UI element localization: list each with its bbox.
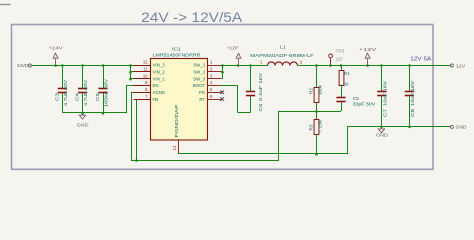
wire FB down: [136, 99, 138, 161]
svg-text:TP2: TP2: [336, 48, 345, 53]
svg-text:R3: R3: [308, 124, 314, 130]
capacitor C4: [75, 65, 90, 113]
svg-text:SW_2: SW_2: [193, 70, 206, 75]
capacitor C7: [377, 65, 388, 126]
svg-text:C8: C8: [410, 109, 416, 117]
resistor R1: [339, 65, 350, 87]
pin 9 EN: [134, 80, 159, 88]
wire BOOT loop: [221, 85, 238, 87]
wire SW bus vertical: [222, 65, 224, 79]
junction R1 top: [340, 64, 343, 67]
junction VIN bus pin10: [129, 78, 132, 81]
junction TP2: [329, 64, 332, 67]
junction +12P: [237, 64, 240, 67]
svg-text:VIN_2: VIN_2: [153, 70, 166, 75]
stray border segment top-left: [0, 4, 11, 6]
wire SW node to L1: [221, 65, 267, 67]
pin 13 PGND/DAP: [172, 104, 179, 153]
wire FB node: [279, 111, 342, 113]
pin 5 PG: [199, 87, 221, 95]
junction C4 bottom: [81, 112, 84, 115]
svg-text:7.15k: 7.15k: [318, 119, 324, 133]
capacitor C6: [246, 65, 264, 113]
pin 3 SW_3: [193, 73, 221, 81]
capacitor C3: [54, 65, 69, 113]
no-connect X on pin 5 PG: [220, 91, 224, 95]
svg-text:C5: C5: [95, 93, 101, 101]
wire EN to ground rail: [126, 85, 136, 87]
svg-text:C9: C9: [353, 96, 359, 102]
svg-text:PG: PG: [199, 90, 206, 95]
svg-text:4.7uF 50V: 4.7uF 50V: [63, 79, 69, 106]
junction C7 bottom: [380, 126, 383, 129]
svg-text:FB: FB: [153, 97, 159, 102]
svg-text:GND: GND: [456, 125, 468, 131]
power symbol +12P: [227, 45, 241, 65]
svg-text:GND: GND: [77, 122, 89, 127]
svg-text:+24V: +24V: [49, 45, 64, 50]
svg-text:PGND/DAP: PGND/DAP: [174, 104, 179, 137]
svg-text:12: 12: [143, 60, 148, 65]
svg-text:13: 13: [172, 145, 177, 150]
wire L1 to 12V output: [298, 65, 451, 67]
svg-text:24V -> 12V/5A: 24V -> 12V/5A: [141, 9, 243, 25]
pin 1 SW_1: [193, 60, 221, 68]
capacitor C8: [405, 65, 416, 126]
svg-text:C4: C4: [75, 93, 81, 101]
svg-text:11: 11: [143, 67, 148, 72]
wire VIN bus vertical: [130, 65, 132, 79]
junction C3 top: [61, 64, 64, 67]
svg-text:4.7uF 50V: 4.7uF 50V: [83, 79, 89, 106]
ground symbol (output): [381, 127, 383, 129]
svg-text:LMR51450FNDRRR: LMR51450FNDRRR: [153, 53, 202, 58]
svg-text:10: 10: [143, 73, 148, 78]
junction C5 bottom: [102, 112, 105, 115]
svg-text:100nF 50V: 100nF 50V: [104, 78, 110, 107]
pin 11 VIN_2: [134, 67, 166, 75]
svg-text:12V: 12V: [336, 56, 343, 61]
svg-text:0.1uF 16V: 0.1uF 16V: [258, 72, 264, 101]
svg-text:IC1: IC1: [172, 46, 181, 51]
pin 7 FB: [134, 94, 159, 102]
power symbol +24V: [49, 45, 64, 65]
svg-text:RT: RT: [199, 97, 205, 102]
junction +24V: [54, 64, 57, 67]
resistor R2: [308, 65, 323, 111]
svg-text:MAPMS0ADF-6R8M-LF: MAPMS0ADF-6R8M-LF: [250, 53, 314, 58]
pin 6 RT: [199, 94, 221, 102]
svg-text:R2: R2: [308, 88, 314, 94]
wire AGND down: [131, 92, 136, 94]
junction C8 bottom: [408, 126, 411, 129]
wire FB rise: [278, 111, 280, 161]
junction FB divider: [315, 110, 318, 113]
svg-text:33pF 50V: 33pF 50V: [353, 102, 376, 108]
resistor R3: [308, 111, 323, 154]
capacitor C9: [336, 85, 376, 111]
junction R2 top: [315, 64, 318, 67]
IC1 buck converter body: [151, 59, 208, 141]
svg-text:SW_1: SW_1: [193, 63, 206, 68]
pin 10 VIN_1: [134, 73, 166, 81]
wire PGND return: [179, 153, 348, 155]
wire input ground rail: [62, 112, 126, 114]
hierarchical pin 24VD: [17, 63, 31, 68]
svg-text:AGND: AGND: [153, 90, 166, 95]
pin 4 BOOT: [193, 80, 221, 88]
power symbol +12V: [359, 47, 378, 65]
svg-text:C6: C6: [258, 103, 264, 111]
junction C8 top: [408, 64, 411, 67]
svg-text:BOOT: BOOT: [193, 83, 206, 88]
svg-text:GND: GND: [376, 132, 388, 137]
junction VIN bus pin12: [129, 64, 132, 67]
hierarchical pin 12V: [450, 63, 466, 69]
svg-text:10uF 16V: 10uF 16V: [410, 80, 416, 106]
junction +12V: [366, 64, 369, 67]
testpoint TP2: [329, 48, 345, 65]
pin 2 SW_2: [193, 67, 221, 75]
wire output ground rail: [347, 126, 450, 128]
junction SW bus pin2: [221, 71, 224, 74]
junction VIN bus pin11: [129, 71, 132, 74]
junction C4 top: [81, 64, 84, 67]
wire FB bottom run: [131, 160, 278, 162]
ground symbol (input): [82, 113, 84, 115]
svg-text:12V: 12V: [456, 63, 466, 69]
inductor L1: [250, 44, 314, 65]
svg-text:+12V: +12V: [359, 47, 378, 52]
svg-text:R1: R1: [344, 71, 350, 77]
junction SW bus pin1: [221, 64, 224, 67]
junction FB/AGND: [135, 159, 138, 162]
wire 24VD to VIN bus: [31, 65, 136, 67]
svg-text:C3: C3: [54, 93, 60, 101]
svg-text:SW_3: SW_3: [193, 76, 206, 81]
svg-text:VIN_3: VIN_3: [153, 63, 166, 68]
svg-text:12V 5A: 12V 5A: [410, 57, 431, 63]
hierarchical pin GND: [450, 125, 467, 131]
capacitor C5: [95, 65, 110, 113]
wire ground rise: [347, 126, 349, 154]
svg-text:24VD: 24VD: [17, 63, 29, 68]
svg-text:VIN_1: VIN_1: [153, 76, 166, 81]
junction C6 top: [249, 64, 252, 67]
svg-text:10uF 16V: 10uF 16V: [383, 80, 389, 106]
pin 8 AGND: [134, 87, 166, 95]
junction R3 bottom: [315, 153, 318, 156]
svg-text:C7: C7: [383, 109, 389, 117]
svg-text:1k: 1k: [344, 81, 349, 87]
pin 12 VIN_3: [134, 60, 166, 68]
svg-text:L1: L1: [280, 44, 286, 49]
svg-text:100k: 100k: [318, 84, 324, 95]
svg-text:+12P: +12P: [227, 45, 238, 50]
svg-text:EN: EN: [153, 83, 159, 88]
no-connect X on pin 6 RT: [220, 97, 224, 101]
junction C7 top: [380, 64, 383, 67]
junction C5 top: [102, 64, 105, 67]
